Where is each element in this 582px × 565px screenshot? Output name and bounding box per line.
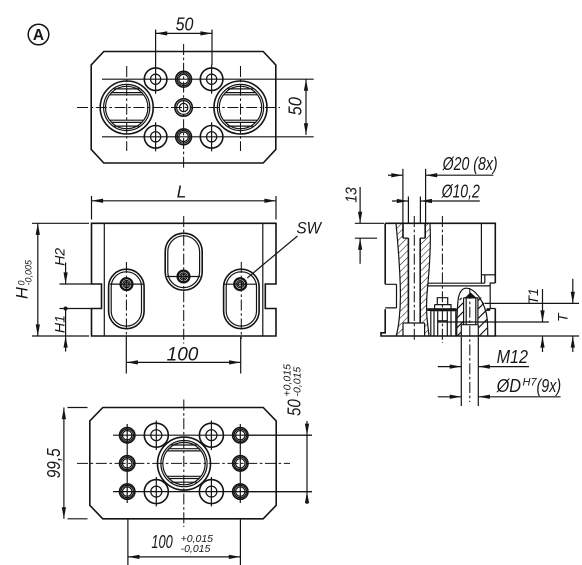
dimension H with tolerance xyxy=(14,223,90,336)
through hole wall left xyxy=(407,238,409,323)
bottom view vertical centerline xyxy=(183,400,185,528)
M12 thread top xyxy=(464,297,478,299)
center screw crosshair xyxy=(167,276,200,278)
hatched sleeve wall right xyxy=(420,223,430,336)
counterbored hole bottom-right xyxy=(200,122,223,151)
dimension 50 +0,015/-0,015 xyxy=(244,364,312,504)
dimension T xyxy=(555,279,575,352)
dome bushing outline xyxy=(457,288,488,336)
dimension Ø10,2 xyxy=(392,181,480,224)
svg-text:-0,015: -0,015 xyxy=(181,543,211,555)
through hole wall right xyxy=(419,238,421,323)
center screw washer xyxy=(430,309,457,311)
hatched sleeve wall left xyxy=(396,223,408,336)
dimension 100 xyxy=(126,337,240,374)
dimension 100 +0,015/-0,015 xyxy=(128,519,240,565)
groove top second line xyxy=(428,285,490,287)
svg-text:Ø10,2: Ø10,2 xyxy=(441,181,480,202)
left bushing vertical centerline xyxy=(126,66,128,151)
svg-text:50: 50 xyxy=(284,399,305,416)
svg-text:-0,005: -0,005 xyxy=(24,259,34,286)
threaded hole top-middle xyxy=(176,71,192,87)
front view vertical centerline xyxy=(183,216,185,344)
right slot centerline xyxy=(240,262,242,339)
svg-text:50: 50 xyxy=(176,13,194,34)
center screw body xyxy=(431,311,456,336)
chamfer projection line right xyxy=(262,223,264,336)
threaded hole right-top xyxy=(233,428,248,443)
bottom counterbore xyxy=(403,323,425,336)
top view horizontal centerline xyxy=(77,107,280,109)
top view octagon outline xyxy=(91,52,276,164)
svg-text:SW: SW xyxy=(297,220,323,238)
groove bottom band right segment xyxy=(487,308,491,311)
center slot xyxy=(165,233,202,290)
svg-text:H2: H2 xyxy=(51,248,67,266)
right bushing xyxy=(214,81,267,134)
svg-text:Ø20 (8x): Ø20 (8x) xyxy=(442,153,498,174)
dimension 99,5 xyxy=(43,408,88,519)
counterbore wall left xyxy=(402,223,404,238)
bottom view horizontal centerline xyxy=(77,462,290,464)
left edge notch xyxy=(385,284,396,308)
hole row line lower xyxy=(102,136,314,138)
counterbored hole top-left xyxy=(144,65,167,94)
center screw xyxy=(178,271,190,283)
counterbore wall right xyxy=(424,223,426,238)
counterbored hole inner right-top xyxy=(199,421,223,451)
svg-text:(9x): (9x) xyxy=(537,375,562,396)
bore centerline xyxy=(413,216,415,342)
counterbored hole inner left-top xyxy=(144,421,168,451)
T extension line (hole depth) xyxy=(438,321,549,323)
svg-text:ØD: ØD xyxy=(496,375,521,396)
threaded hole bottom-middle xyxy=(176,129,192,145)
left bushing xyxy=(100,81,153,134)
top right step vertical xyxy=(480,223,482,283)
dimension M12 xyxy=(438,337,529,406)
fitting hole walls xyxy=(461,325,478,336)
front view outline with side notches xyxy=(92,223,277,336)
svg-text:T1: T1 xyxy=(525,288,541,304)
counterbore bottom xyxy=(403,237,425,239)
left slot centerline xyxy=(125,262,127,336)
step lower vertical xyxy=(484,275,486,283)
counterbored hole bottom-left xyxy=(144,122,167,151)
svg-text:99,5: 99,5 xyxy=(43,448,64,479)
left slot xyxy=(109,269,145,329)
groove top line xyxy=(428,282,485,284)
dimension 13 xyxy=(344,187,385,264)
sleeve break line left xyxy=(396,223,400,336)
dome hatch lines xyxy=(457,298,488,337)
SW label and leader xyxy=(247,220,322,278)
view vertical centerline xyxy=(441,216,443,343)
T1 extension line xyxy=(485,302,579,304)
center screw stepped head xyxy=(435,298,451,310)
bottom edge extension xyxy=(495,335,579,337)
right bushing vertical centerline xyxy=(240,66,242,151)
counterbored hole top-right xyxy=(200,65,223,94)
counterbored hole inner left-bottom xyxy=(144,477,168,506)
sleeve break line right xyxy=(427,223,431,336)
svg-text:M12: M12 xyxy=(497,346,529,367)
dimension T1 xyxy=(525,288,544,352)
hole row line upper xyxy=(102,78,314,80)
svg-text:H7: H7 xyxy=(523,377,538,389)
left screw crosshair xyxy=(110,283,143,285)
groove bottom band left segment xyxy=(427,308,457,311)
threaded hole left-top xyxy=(120,428,135,443)
dimension 50 top xyxy=(156,13,212,65)
center screw body inner lines xyxy=(434,311,451,336)
M12 thread cone xyxy=(464,292,477,298)
svg-text:H1: H1 xyxy=(51,315,67,333)
right edge notch xyxy=(490,283,495,309)
threaded hole right-bottom xyxy=(233,484,248,499)
center screw shoulder xyxy=(438,320,448,322)
right outer column crosshair xyxy=(239,424,241,503)
left screw xyxy=(121,278,133,290)
hole row line upper xyxy=(113,434,312,436)
svg-text:L: L xyxy=(177,181,187,201)
right slot xyxy=(224,269,260,329)
svg-text:-0,015: -0,015 xyxy=(292,367,304,397)
M12 thread walls xyxy=(464,298,478,325)
view label A xyxy=(28,24,49,45)
top right step ledge xyxy=(481,274,495,276)
svg-text:T: T xyxy=(555,312,571,322)
top view vertical centerline xyxy=(183,44,185,171)
dimension H1 xyxy=(51,307,91,352)
threaded hole right-middle xyxy=(233,456,248,471)
dimension H2 xyxy=(51,248,91,284)
bottom view octagon outline xyxy=(90,408,276,519)
thread end line xyxy=(461,324,478,326)
fitting hole centerline xyxy=(469,288,471,402)
threaded hole left-bottom xyxy=(120,484,135,499)
dimension ØD H7 (9x) xyxy=(438,375,561,399)
counterbored hole inner right-bottom xyxy=(199,477,223,506)
left outer column crosshair xyxy=(126,424,128,503)
center fitting hole xyxy=(175,99,192,116)
dimension L xyxy=(92,181,277,219)
center bushing bottom xyxy=(158,437,211,490)
threaded hole left-middle xyxy=(120,456,135,471)
svg-text:H: H xyxy=(14,287,32,299)
svg-text:13: 13 xyxy=(344,187,361,203)
svg-text:100: 100 xyxy=(167,344,199,365)
hole row line lower xyxy=(113,491,312,493)
dimension Ø20 (8x) xyxy=(388,153,498,223)
right screw crosshair xyxy=(224,283,257,285)
section outline xyxy=(381,223,495,336)
svg-text:A: A xyxy=(33,27,44,44)
svg-text:50: 50 xyxy=(285,97,306,116)
dimension 50 right xyxy=(285,79,308,135)
svg-text:100: 100 xyxy=(151,531,173,552)
right screw xyxy=(234,278,246,290)
chamfer projection line left xyxy=(103,223,105,336)
